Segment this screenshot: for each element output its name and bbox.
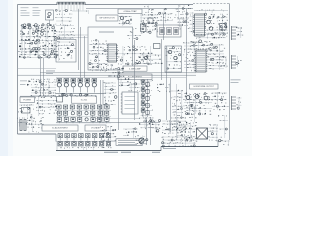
degauss lower wires — [27, 127, 41, 134]
IF IC U101 box — [107, 44, 118, 62]
left small box B2 — [57, 97, 63, 103]
wire power to bus — [20, 95, 56, 97]
transistor Q10 top — [144, 6, 153, 13]
chroma small box right — [220, 24, 227, 31]
ladder chain stacked parts — [141, 80, 149, 114]
ladder components top right — [175, 5, 192, 19]
HV rectifier parts — [162, 136, 196, 147]
label VHF tuner — [46, 71, 55, 74]
pot row tail parts — [119, 78, 131, 87]
schematic frame top border — [18, 4, 58, 6]
power transformer T601 — [20, 120, 26, 131]
control pots row VR1-VR6 — [57, 79, 97, 93]
svg-text:4.5MHz TRAP: 4.5MHz TRAP — [123, 10, 137, 13]
audio out cluster top — [190, 40, 212, 50]
wire RF block verticals — [22, 24, 54, 58]
footer caption text left — [104, 151, 131, 154]
yoke connector bracket CN3 — [232, 96, 242, 110]
jungle IC U201 long box — [72, 96, 97, 103]
tuner shield parts — [56, 41, 75, 61]
chroma parts near delay line — [140, 14, 158, 34]
parts right of vert IC — [103, 96, 117, 107]
flyback drive right parts — [186, 106, 196, 122]
antenna connector bracket CN1 — [232, 26, 244, 40]
IC voltage chart label box — [85, 125, 106, 131]
delay line box DL1 — [157, 25, 181, 37]
power switch S601 box — [22, 108, 31, 114]
legend strip left edge wire — [56, 142, 58, 151]
audio IC U401 — [195, 50, 208, 72]
bus wire from connector to IF strip — [86, 8, 193, 10]
bottom border step — [160, 147, 162, 151]
svg-text:HORIZONTAL OUTPUT: HORIZONTAL OUTPUT — [194, 85, 215, 88]
video-IF module box outline — [88, 27, 133, 70]
speaker terminal blob — [219, 56, 227, 68]
video detector parts — [116, 46, 153, 65]
hdrive parts — [157, 84, 170, 94]
notes label box bottom-middle — [116, 139, 142, 146]
tuner section cluster — [18, 39, 57, 59]
wire left-mid horizontal — [18, 68, 57, 70]
speaker connector bracket CN2 — [232, 55, 242, 69]
resistor rows below jungle IC — [57, 105, 112, 123]
RF input stage cluster Q1 Q2 — [20, 23, 56, 39]
bottom-left label box — [42, 125, 78, 131]
shield box top parts row — [197, 9, 224, 13]
connector J1 drop wires — [59, 5, 83, 11]
parts below vert IC — [100, 126, 117, 141]
CRT socket parts — [208, 124, 218, 142]
AC input label arrows — [20, 80, 31, 86]
top edge connector hatch bar J1 — [57, 2, 85, 5]
wire top-left drop — [49, 20, 51, 24]
IF amp cluster Q3 — [55, 9, 72, 25]
chroma transistors right of U301 — [207, 20, 213, 30]
shield box input pin marks — [190, 12, 195, 34]
ladder chain components rails — [143, 79, 148, 117]
ground return marks — [219, 139, 231, 146]
flyback surround parts — [177, 122, 197, 142]
legend strip top rule — [56, 141, 116, 143]
horizontal output label box — [190, 84, 219, 89]
small box B1 — [154, 44, 161, 49]
regulator parts — [36, 97, 58, 117]
heater circuit parts — [139, 117, 154, 129]
bus label box — [118, 74, 152, 80]
AGC module box — [46, 10, 54, 20]
wire shield box top bus — [194, 10, 228, 12]
tuner shield module box outline — [56, 40, 76, 63]
legend parts grid row2 — [58, 142, 111, 146]
flyback drive column lower — [172, 117, 188, 132]
mid sparse parts — [144, 56, 147, 59]
right side vertical bus wire — [229, 40, 231, 140]
svg-text:POWER: POWER — [23, 99, 31, 101]
legend row3 ticks — [60, 147, 111, 151]
shield box right parts — [204, 13, 228, 34]
wire verticals right-mid — [167, 46, 177, 140]
frame step wire at x56 — [55, 134, 57, 142]
power switch parts — [18, 104, 34, 117]
jungle IC pin parts above — [58, 93, 96, 97]
svg-text:4.5MHz AMP: 4.5MHz AMP — [129, 67, 141, 70]
frame bottom right border — [161, 146, 218, 148]
IF module interior parts — [89, 40, 109, 72]
pots bottom bus wire — [56, 92, 106, 94]
bus junction parts — [108, 68, 124, 78]
audio IC right parts — [207, 43, 225, 70]
wire horizontal mid-low pair — [56, 118, 160, 122]
paper background — [0, 0, 252, 156]
4.5MHz trap filter box FL1 — [118, 9, 142, 14]
mode switch parts — [104, 82, 117, 94]
vertical bus wires center — [101, 40, 135, 130]
flyback area parts column — [171, 90, 183, 117]
shield box bottom parts row — [196, 33, 226, 39]
sync separator label box — [123, 66, 147, 71]
wire mid verticals — [162, 9, 187, 95]
wire bottom verticals — [147, 117, 151, 145]
AFT coil L1 — [86, 10, 88, 14]
frame bottom-left border — [18, 133, 57, 135]
power label box — [20, 97, 35, 102]
yoke return parts — [162, 120, 179, 134]
horiz out transistors Q501 Q502 Q503 — [186, 95, 208, 100]
shield box dashed border top-right — [193, 4, 230, 41]
right-edge small parts lower — [218, 115, 228, 138]
ladder chain lower parts — [177, 18, 189, 30]
power supply cluster — [31, 79, 56, 97]
schematic frame left border — [17, 5, 19, 135]
AGC parts below IF box — [101, 64, 113, 70]
degauss parts bottom-left — [26, 116, 44, 126]
vert out IC U202 box — [121, 92, 138, 114]
transistor Q601 blob — [139, 138, 144, 143]
sound module parts — [168, 50, 177, 59]
vert osc parts — [128, 83, 140, 92]
wire tuner verticals — [41, 58, 44, 96]
video-IF module label — [99, 32, 114, 33]
burst amp cluster above delay line — [157, 12, 173, 23]
audio section parts left — [183, 42, 197, 72]
horiz out parts main — [183, 93, 213, 116]
yoke label text — [231, 80, 241, 83]
horiz out right parts — [211, 92, 228, 110]
legend parts grid row1 — [58, 134, 111, 141]
svg-text:SIF DETECTOR: SIF DETECTOR — [99, 18, 115, 20]
bottom mid-right parts — [151, 120, 161, 133]
footer caption text right — [152, 148, 176, 153]
flyback transformer T602 box — [197, 128, 208, 139]
video amp transistors Q201 Q202 — [127, 28, 141, 40]
horizontal bus wires across middle — [18, 73, 197, 78]
svg-text:B+ ADJUSTMENT: B+ ADJUSTMENT — [52, 127, 68, 130]
sound module box outline — [165, 46, 182, 72]
sound discriminator T101 — [120, 16, 129, 23]
B+ label parts — [160, 8, 166, 14]
vertical bus pair left of module — [79, 9, 85, 78]
notes table text block — [21, 7, 41, 16]
frame bottom middle border — [56, 150, 161, 152]
svg-text:IC 201: IC 201 — [81, 99, 88, 101]
IF amp cluster lower — [55, 25, 75, 40]
bandpass coil boxes — [141, 18, 154, 32]
chroma IC U301 tall module box — [193, 14, 206, 36]
IF detector box FL2 — [96, 15, 118, 21]
antenna terminal blob — [219, 26, 229, 39]
svg-text:VOLTAGE: VOLTAGE — [91, 127, 100, 130]
page left margin tint strip — [0, 0, 8, 156]
wire crossover top-middle — [60, 11, 88, 38]
pincushion parts — [123, 128, 139, 138]
